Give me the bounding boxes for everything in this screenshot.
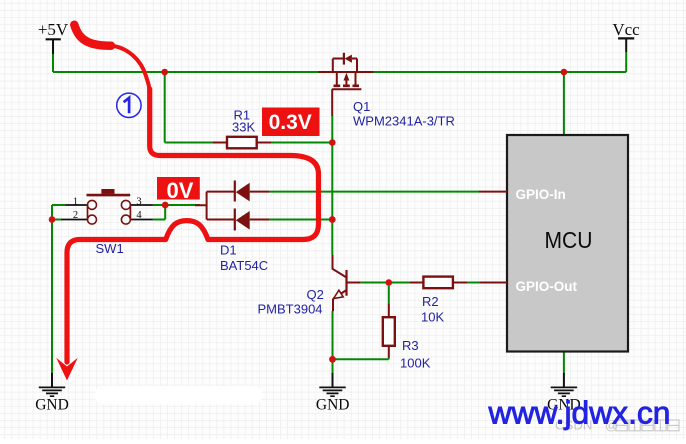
svg-text:MCU: MCU [545,227,593,253]
svg-text:Q1: Q1 [353,99,370,114]
svg-text:www.jdwx.cn: www.jdwx.cn [488,395,671,431]
svg-text:R3: R3 [402,338,419,353]
svg-text:4: 4 [136,210,142,221]
svg-text:Q2: Q2 [307,287,324,302]
svg-text:GND: GND [316,397,350,414]
svg-text:GND: GND [35,397,69,414]
svg-text:0.3V: 0.3V [269,111,312,134]
svg-text:GPIO-In: GPIO-In [516,187,566,202]
svg-text:+5V: +5V [38,20,69,39]
svg-text:SW1: SW1 [96,241,124,256]
svg-text:1: 1 [73,196,78,207]
svg-text:100K: 100K [400,356,431,371]
svg-text:R2: R2 [422,294,439,309]
svg-text:33K: 33K [232,120,255,135]
svg-text:D1: D1 [220,243,237,258]
svg-text:Vcc: Vcc [612,20,640,39]
svg-text:2: 2 [73,210,78,221]
svg-text:10K: 10K [421,310,444,325]
svg-text:GPIO-Out: GPIO-Out [516,279,578,294]
svg-text:3: 3 [136,196,141,207]
svg-text:PMBT3904: PMBT3904 [258,302,323,317]
svg-text:WPM2341A-3/TR: WPM2341A-3/TR [353,114,455,129]
svg-text:BAT54C: BAT54C [220,258,268,273]
svg-text:0V: 0V [167,178,194,203]
